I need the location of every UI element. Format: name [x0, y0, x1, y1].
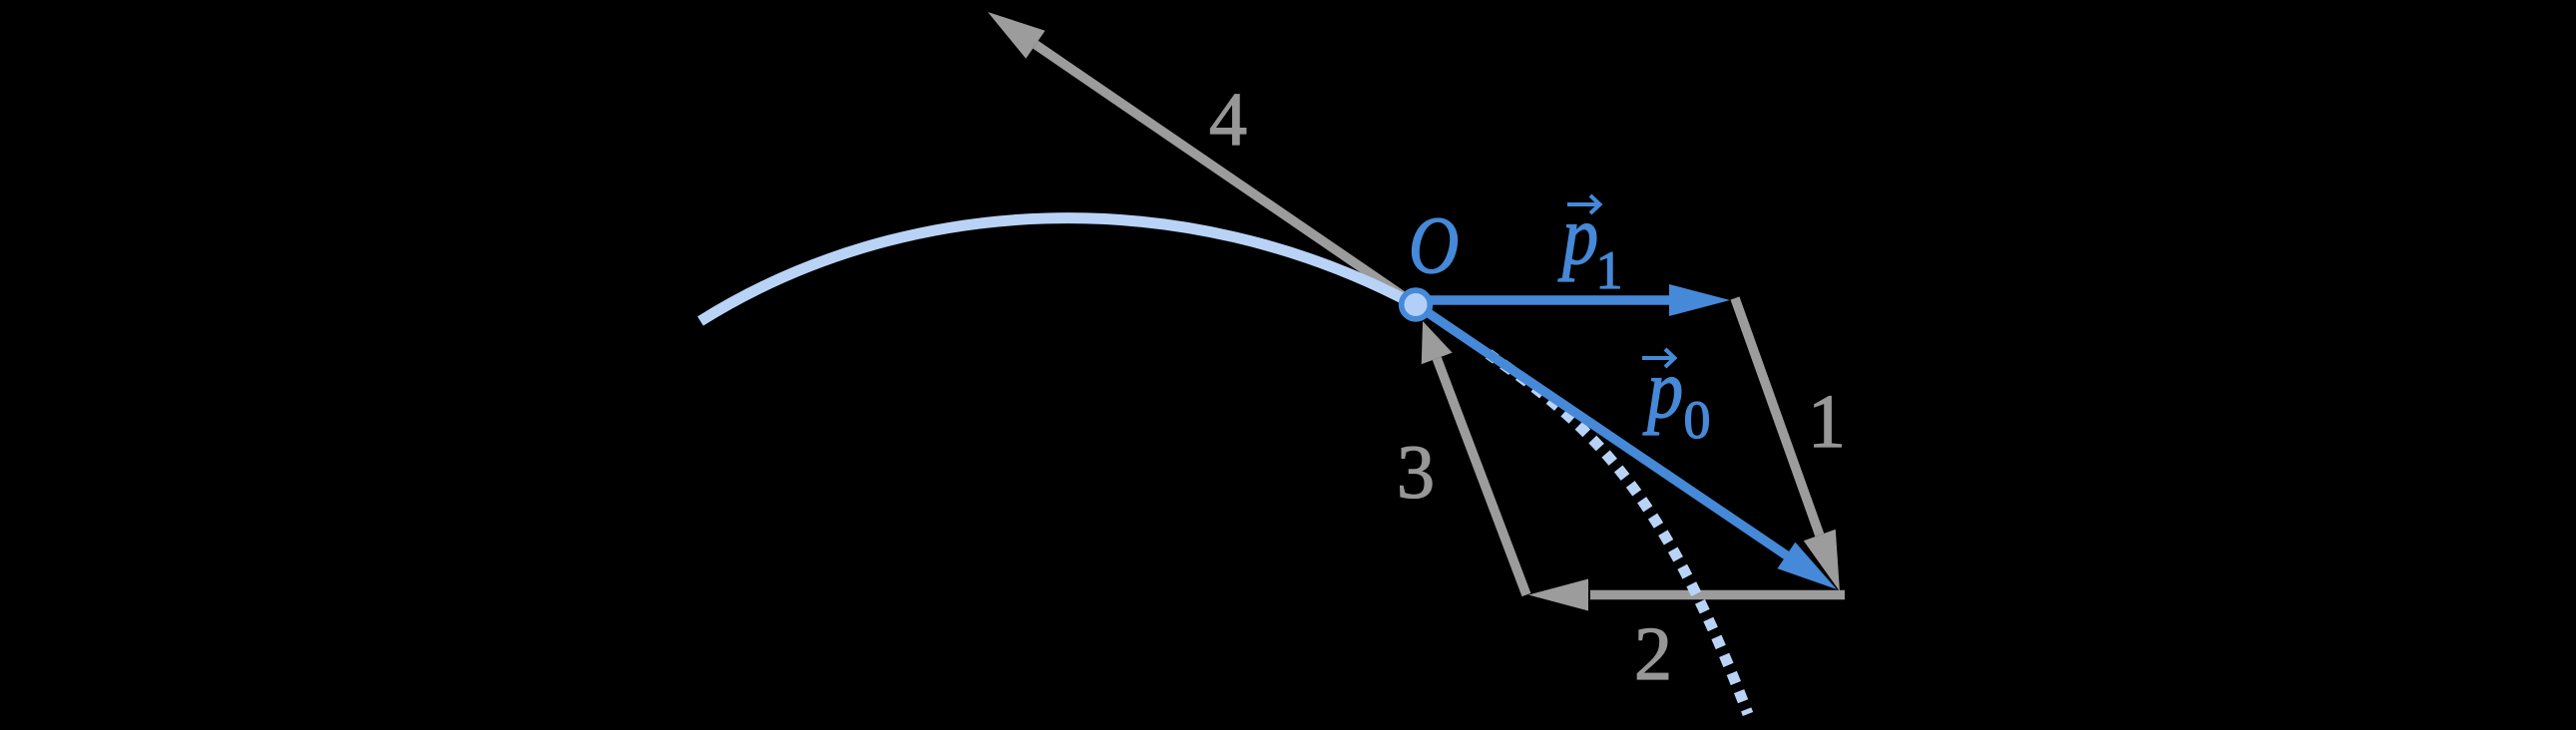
arrow 3 (gray, from corner C up to O)	[1422, 321, 1526, 595]
svg-text:O: O	[1409, 200, 1459, 291]
vector p1 (blue, horizontal from O)	[1416, 284, 1730, 316]
point O marker circle	[1402, 290, 1431, 319]
svg-text:1: 1	[1596, 240, 1623, 300]
svg-text:2: 2	[1634, 612, 1672, 696]
svg-text:3: 3	[1397, 431, 1435, 515]
tangent arrow 4 (gray, up-left from O)	[988, 12, 1416, 305]
svg-text:1: 1	[1808, 380, 1846, 464]
arrow 1 (gray, from p1 tip down to corner B)	[1735, 298, 1840, 591]
svg-text:4: 4	[1209, 78, 1247, 162]
svg-text:p: p	[1642, 342, 1683, 435]
svg-text:p: p	[1557, 188, 1598, 281]
svg-text:0: 0	[1684, 390, 1711, 450]
vector p0 (blue, down-right from O)	[1417, 305, 1837, 589]
trajectory dashed continuation (light blue)	[1489, 354, 1748, 714]
arrow 2 (gray, horizontal right-to-left along bottom)	[1528, 579, 1845, 611]
label p0 with vector arrow	[1642, 342, 1711, 450]
trajectory solid curve (light blue)	[700, 218, 1416, 321]
label p1 with vector arrow	[1557, 188, 1622, 300]
